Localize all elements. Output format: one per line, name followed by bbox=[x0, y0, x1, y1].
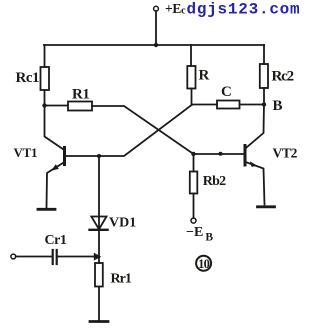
svg-text:Rc1: Rc1 bbox=[16, 70, 40, 86]
svg-text:VT2: VT2 bbox=[273, 146, 298, 161]
svg-text:B: B bbox=[273, 98, 283, 114]
svg-text:−EB: −EB bbox=[186, 225, 213, 244]
svg-text:Rb2: Rb2 bbox=[203, 174, 226, 189]
svg-text:Cr1: Cr1 bbox=[45, 233, 67, 248]
svg-text:R1: R1 bbox=[72, 87, 89, 103]
svg-text:Rc2: Rc2 bbox=[272, 69, 294, 85]
svg-text:R: R bbox=[199, 68, 210, 84]
svg-text:VT1: VT1 bbox=[14, 145, 38, 160]
svg-text:+Ec: +Ec bbox=[165, 1, 186, 17]
svg-text:Rr1: Rr1 bbox=[111, 272, 132, 287]
svg-text:VD1: VD1 bbox=[109, 216, 136, 231]
svg-text:dgjs123.com: dgjs123.com bbox=[187, 1, 301, 19]
svg-text:C: C bbox=[221, 84, 232, 100]
svg-text:10: 10 bbox=[198, 257, 209, 271]
